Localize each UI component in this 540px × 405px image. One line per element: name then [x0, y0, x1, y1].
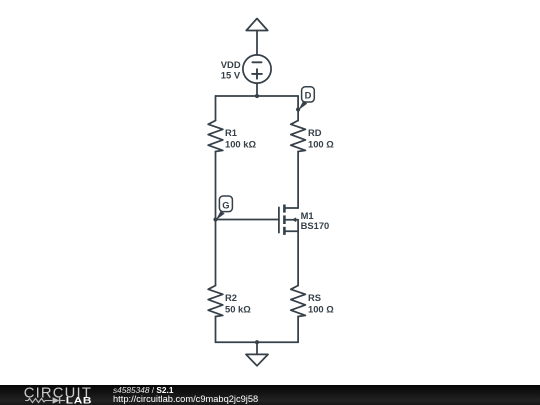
voltage source VDD [243, 55, 271, 83]
wire gate lead [216, 219, 279, 221]
svg-text:LAB: LAB [66, 396, 92, 405]
label R2 50 kΩ [225, 292, 251, 315]
label VDD 15 V [221, 59, 241, 81]
svg-text:100 kΩ: 100 kΩ [225, 139, 256, 150]
wire left branch bottom [215, 317, 217, 343]
wire source [297, 231, 299, 285]
label RS 100 Ω [308, 292, 334, 315]
footer url [113, 394, 258, 404]
resistor RS [291, 286, 306, 317]
node D junction [296, 107, 300, 111]
svg-text:D: D [305, 89, 312, 100]
svg-text:VDD: VDD [221, 59, 241, 70]
flag G [216, 196, 233, 220]
svg-text:BS170: BS170 [301, 220, 330, 231]
node junction top rail [255, 94, 259, 98]
label RD 100 Ω [308, 127, 334, 150]
wire drain [297, 152, 299, 209]
wire left branch middle [215, 152, 217, 286]
svg-text:RS: RS [308, 292, 321, 303]
label R1 100 kΩ [225, 127, 256, 150]
wire right branch bottom [297, 317, 299, 343]
transistor M1 (NMOS BS170) [279, 205, 298, 235]
CircuitLab logo [0, 385, 110, 405]
resistor R1 [208, 121, 223, 152]
ground [246, 342, 268, 366]
footer title s4585348 / S2.1 [113, 385, 173, 395]
svg-text:G: G [222, 199, 229, 210]
label M1 BS170 [301, 210, 330, 231]
node ground junction [255, 340, 259, 344]
resistor RD [291, 121, 306, 152]
svg-text:R1: R1 [225, 127, 237, 138]
resistor R2 [208, 286, 223, 317]
node G junction [213, 217, 217, 221]
svg-text:100 Ω: 100 Ω [308, 304, 334, 315]
svg-text:RD: RD [308, 127, 322, 138]
wire right branch top [297, 96, 299, 121]
svg-text:50 kΩ: 50 kΩ [225, 304, 251, 315]
wire left branch top [215, 96, 217, 121]
power flag VDD (top triangle) [246, 19, 267, 56]
wire bottom rail [216, 341, 299, 343]
flag D [298, 87, 314, 110]
wire VDD source to top rail [256, 83, 258, 96]
svg-text:100 Ω: 100 Ω [308, 139, 334, 150]
svg-text:R2: R2 [225, 292, 237, 303]
footer bar [0, 385, 540, 405]
svg-text:15 V: 15 V [221, 70, 241, 81]
wire top rail [216, 95, 299, 97]
